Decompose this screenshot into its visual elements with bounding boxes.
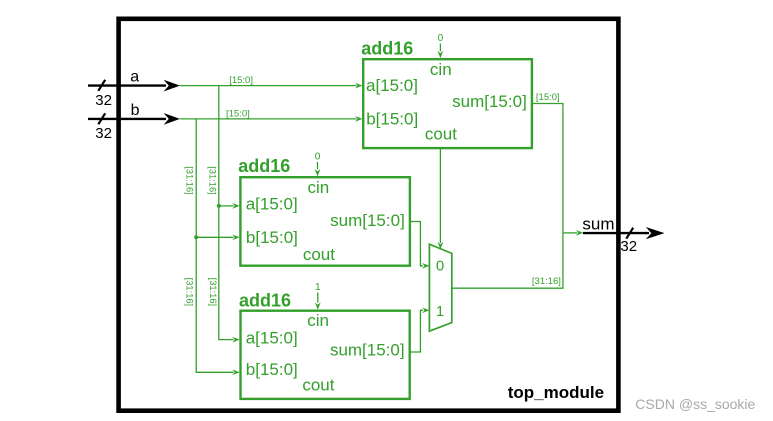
- svg-text:cin: cin: [308, 178, 330, 197]
- bus slash a: [98, 80, 105, 91]
- svg-text:cout: cout: [425, 125, 457, 144]
- svg-text:cout: cout: [302, 376, 334, 395]
- wire concat to sum output: [563, 230, 583, 236]
- wire U2.sum to mux input 0: [410, 222, 430, 269]
- svg-text:cin: cin: [307, 311, 329, 330]
- svg-text:[15:0]: [15:0]: [229, 75, 253, 86]
- svg-text:sum: sum: [582, 214, 614, 233]
- svg-text:top_module: top_module: [508, 383, 604, 402]
- wire branch to U2.b: [196, 234, 240, 240]
- wire U1.sum [15:0] to concat trunk: [532, 104, 563, 233]
- svg-text:cin: cin: [430, 60, 452, 79]
- wire b[15:0] to U1.b: [180, 116, 363, 122]
- svg-text:add16: add16: [239, 291, 291, 311]
- svg-text:b[15:0]: b[15:0]: [246, 228, 298, 247]
- svg-text:[31:16]: [31:16]: [208, 278, 218, 306]
- mux M1: [429, 244, 451, 331]
- svg-text:1: 1: [436, 303, 444, 320]
- wire branch to U2.a: [219, 203, 240, 209]
- svg-text:b[15:0]: b[15:0]: [246, 360, 298, 379]
- svg-text:0: 0: [315, 151, 321, 162]
- svg-text:32: 32: [95, 92, 112, 109]
- wire const 1 to U3.cin: [315, 293, 321, 310]
- svg-text:32: 32: [95, 125, 112, 142]
- input port a wire: [88, 80, 180, 92]
- wire U1.cout to mux select: [438, 149, 444, 249]
- svg-text:[31:16]: [31:16]: [207, 166, 217, 194]
- svg-text:add16: add16: [361, 39, 413, 59]
- svg-text:[31:16]: [31:16]: [532, 276, 561, 287]
- svg-text:1: 1: [315, 282, 321, 293]
- svg-text:a: a: [130, 68, 139, 85]
- svg-text:0: 0: [436, 257, 444, 274]
- bus slash sum: [626, 228, 633, 239]
- svg-text:sum[15:0]: sum[15:0]: [330, 211, 405, 230]
- svg-text:add16: add16: [238, 156, 290, 176]
- svg-text:a[15:0]: a[15:0]: [246, 329, 298, 348]
- svg-text:0: 0: [438, 33, 444, 44]
- svg-text:a[15:0]: a[15:0]: [366, 76, 418, 95]
- svg-text:cout: cout: [303, 245, 335, 264]
- wire const 0 to U2.cin: [315, 162, 321, 176]
- svg-text:sum[15:0]: sum[15:0]: [330, 341, 405, 360]
- input port b wire: [88, 113, 180, 125]
- svg-text:sum[15:0]: sum[15:0]: [452, 92, 527, 111]
- junction b trunk to U2.b: [194, 235, 198, 239]
- add16 U2 (middle adder, upper 16 bits, cin=0): [240, 177, 410, 266]
- wire mux out [31:16] to concat trunk: [452, 233, 563, 288]
- svg-text:b[15:0]: b[15:0]: [366, 110, 418, 129]
- wire a[15:0] to U1.a: [180, 83, 363, 89]
- outer border top_module: [119, 19, 619, 411]
- add16 U3 (bottom adder, upper 16 bits, cin=1): [241, 311, 410, 399]
- svg-text:a[15:0]: a[15:0]: [246, 194, 298, 213]
- wire b[31:16] trunk: [196, 119, 240, 375]
- svg-text:b: b: [131, 102, 140, 119]
- bus slash b: [98, 113, 105, 124]
- add16 U1 (top adder, lower 16 bits): [363, 59, 532, 148]
- junction a trunk to U2.a: [217, 204, 221, 208]
- svg-text:[15:0]: [15:0]: [226, 109, 250, 120]
- wire a[31:16] trunk: [219, 86, 240, 343]
- output port sum wire: [583, 227, 665, 239]
- svg-text:[31:16]: [31:16]: [185, 278, 195, 306]
- svg-text:CSDN @ss_sookie: CSDN @ss_sookie: [635, 396, 755, 412]
- wire U3.sum to mux input 1: [410, 307, 430, 352]
- svg-text:32: 32: [620, 238, 637, 255]
- svg-text:[15:0]: [15:0]: [536, 92, 560, 103]
- wire const 0 to U1.cin: [438, 44, 444, 59]
- svg-text:[31:16]: [31:16]: [185, 166, 195, 194]
